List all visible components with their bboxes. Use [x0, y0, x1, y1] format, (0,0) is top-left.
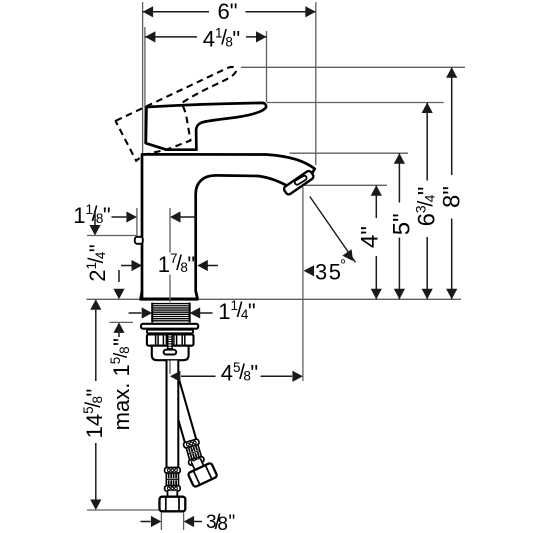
temperature-stop tab on riser: [135, 237, 143, 244]
svg-text:8": 8": [439, 186, 466, 208]
angle 35deg reference diagonal: [310, 197, 356, 263]
svg-text:17/8": 17/8": [158, 251, 195, 277]
handle lever raised position (dashed): [116, 67, 236, 161]
dim 4in arrows: [371, 185, 382, 196]
reference line at spout top level (5in): [290, 152, 409, 154]
dim 1 5/8in tail above: [118, 270, 120, 282]
svg-text:41/8": 41/8": [203, 26, 240, 52]
dim 6in line: [143, 11, 209, 13]
dim 3/8in right: [184, 516, 195, 527]
body bottom edge: [140, 298, 199, 300]
drain rod with threads: [168, 335, 172, 351]
dim 1 7/8in right: [197, 260, 208, 271]
counter deck line: [87, 298, 462, 300]
drain rod clip: [164, 350, 177, 355]
extension line below aerator (4 5/8in right): [302, 187, 304, 381]
fixture centerline upper segment: [169, 208, 171, 253]
reference line at handle top level (6 3/4in): [267, 102, 444, 104]
dim 1 1/8in left part: [112, 216, 127, 218]
angled supply hose tube and crimp: [166, 378, 205, 466]
svg-text:45/8": 45/8": [221, 360, 258, 386]
dim 4 5/8in line: [181, 375, 216, 377]
centerline lower segment: [169, 361, 171, 375]
dim 5in line: [398, 153, 400, 202]
dim 3/8in left: [141, 521, 151, 523]
dim 8in line: [451, 67, 453, 175]
svg-text:5": 5": [389, 213, 416, 235]
dim 14 5/8in line upper: [95, 310, 97, 382]
body bottom flare left: [141, 291, 142, 299]
svg-text:3/8": 3/8": [206, 511, 235, 533]
dim 1 1/8in right part: [170, 211, 181, 222]
extension line left for 6in dim: [142, 2, 144, 299]
extension line for pin tab (1 1/8in): [136, 208, 138, 236]
faucet body and spout outline: [142, 154, 315, 298]
dim 14 5/8in bottom arrow: [90, 500, 101, 511]
angle 35deg arrow on diagonal: [342, 249, 353, 261]
aerator block at spout tip: [283, 170, 315, 196]
dim 1 5/8in arrows: [113, 289, 124, 300]
reference line at counter bottom (1 5/8in): [110, 321, 134, 323]
shank seal washer: [147, 330, 193, 334]
mounting lock nut: [147, 334, 194, 345]
reference line at tab top (2 1/4in): [87, 235, 137, 237]
reference line at hose end (14 5/8in): [87, 509, 163, 511]
threaded shank with thread lines: [152, 303, 190, 323]
dim 1 5/8in tail below: [118, 333, 120, 337]
svg-text:63/4": 63/4": [413, 187, 441, 227]
dim 1 7/8in left: [121, 265, 132, 267]
dim 4 1/8in arrows: [145, 31, 156, 42]
dim 1 1/4in left: [129, 312, 142, 314]
reference line at raised-handle tip level (8in): [241, 66, 465, 68]
dim 4in line: [375, 185, 377, 218]
svg-text:4": 4": [357, 226, 384, 248]
dim 6 3/4in arrows: [422, 103, 433, 114]
fixture centerline mid segment: [169, 275, 171, 303]
extension line right for 4 1/8in dim (handle tip): [266, 31, 268, 102]
dim 3/8in ext lines: [160, 513, 162, 531]
dim 1 1/4in right: [190, 307, 201, 318]
dim 2 1/4in arrows: [89, 225, 100, 236]
dim 4 1/8in line: [145, 36, 197, 38]
dim 6 3/4in line: [426, 103, 428, 181]
dim 2 1/4in tail above: [94, 211, 96, 225]
aerator outlet slot: [294, 175, 308, 186]
svg-text:6": 6": [217, 0, 237, 24]
angle 35deg arrow at vertical: [304, 265, 315, 276]
angled supply hose nut: [184, 455, 217, 487]
dim 14 5/8in line lower: [95, 443, 97, 500]
extension line left for 4 1/8in dim: [144, 27, 146, 144]
body bottom flare right: [196, 291, 198, 299]
dim 8in arrows: [446, 67, 457, 78]
reference line at aerator level (4in): [301, 184, 387, 186]
handle lever (rest position): [146, 103, 266, 150]
dim 6in arrows: [143, 6, 154, 17]
shank flange washer: [141, 324, 198, 329]
straight supply hose: [160, 361, 186, 512]
dim 5in arrows: [394, 153, 405, 164]
lower mounting block: [152, 346, 189, 361]
dim 4 5/8in arrows: [170, 371, 181, 382]
extension line right for 6in dim: [315, 2, 317, 165]
svg-text:11/4": 11/4": [218, 298, 255, 324]
svg-text:21/4": 21/4": [84, 244, 110, 281]
svg-text:11/8": 11/8": [73, 202, 110, 228]
